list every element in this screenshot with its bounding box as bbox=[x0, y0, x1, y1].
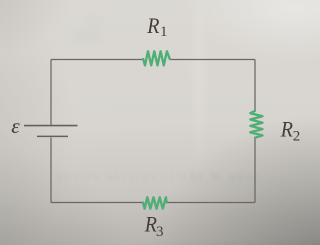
wire top (right segment) bbox=[170, 59, 255, 61]
battery EMF source: long plate bbox=[24, 125, 78, 127]
wire right lower bbox=[254, 138, 256, 203]
svg-text:1: 1 bbox=[160, 24, 168, 40]
wire bottom left segment bbox=[51, 202, 143, 204]
ghost bleed-through marks top bbox=[72, 16, 102, 44]
resistor R1 zigzag bbox=[143, 51, 170, 65]
svg-text:ε: ε bbox=[11, 114, 20, 138]
wire left upper bbox=[50, 60, 52, 126]
svg-text:3: 3 bbox=[156, 224, 164, 240]
svg-text:nbi: nbi bbox=[2, 203, 16, 215]
ghost bleed-through text band above bottom wire bbox=[56, 170, 186, 182]
svg-text:2: 2 bbox=[293, 129, 301, 145]
svg-text:R: R bbox=[280, 116, 294, 141]
svg-text:uoviib asviiqs viil: uoviib asviiqs viil bbox=[56, 170, 186, 182]
resistor R3 zigzag bbox=[143, 197, 167, 208]
svg-text:bi W nnol: bi W nnol bbox=[190, 169, 259, 183]
wire right upper bbox=[254, 60, 256, 112]
wire top (left segment) bbox=[51, 59, 143, 61]
wire bottom right segment bbox=[167, 202, 255, 204]
resistor R2 zigzag bbox=[250, 111, 262, 138]
wire left lower bbox=[50, 138, 52, 203]
battery EMF source: short plate bbox=[37, 135, 68, 137]
svg-text:R: R bbox=[146, 13, 160, 38]
